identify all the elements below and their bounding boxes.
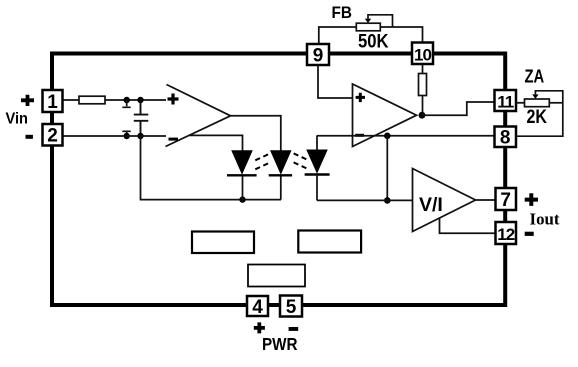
node dot at D1 cathode on rail (239, 196, 245, 202)
svg-text:11: 11 (497, 93, 514, 112)
isolation block rect 3 (248, 265, 305, 287)
light rays D2 to D1 (255, 153, 270, 169)
wire feedback to photodiode D1 anode (189, 135, 243, 151)
capacitor stub bottom (guard cap) (122, 131, 130, 136)
wire cap down to LED bottom rail (141, 136, 282, 200)
svg-text:8: 8 (500, 128, 511, 149)
LED D2 (269, 151, 292, 200)
pin 5 (280, 296, 302, 319)
op-amp U1 + symbol (168, 94, 179, 105)
svg-text:Vin: Vin (6, 111, 29, 128)
wire D3 anode to op-amp2 - input to pin 8 (317, 135, 495, 137)
node D dot on - line (137, 133, 143, 139)
pin 2 (43, 124, 63, 147)
pin 10 (412, 43, 433, 65)
photodiode D3 (305, 135, 330, 200)
wire op-amp2 output to pin 11 (422, 102, 495, 115)
isolation block rect 2 (298, 231, 361, 253)
node A dot on + line (124, 97, 130, 103)
wire bottom rail to V/I input (317, 199, 413, 201)
pin 8 (495, 127, 517, 149)
svg-text:7: 7 (500, 190, 511, 211)
pin 12 (496, 222, 517, 244)
node dot on - line (384, 133, 391, 140)
svg-text:2K: 2K (527, 107, 548, 128)
op-amp U2 + symbol (356, 93, 365, 102)
pot 2K (ZA) (516, 91, 563, 136)
wire V/I output to pin 7 (476, 199, 496, 201)
svg-text:Iout: Iout (530, 210, 560, 229)
photodiode D1 (227, 151, 257, 200)
svg-text:12: 12 (497, 225, 514, 244)
svg-text:10: 10 (414, 46, 431, 65)
svg-text:V/I: V/I (419, 194, 443, 216)
wire op-amp U1 output to LED D2 anode (231, 116, 281, 151)
wire pin1 to resistor to op-amp1 + input (63, 99, 167, 101)
wire pin2 to op-amp1 - input (63, 135, 167, 137)
op-amp U1 - symbol (169, 138, 179, 141)
capacitor C1 between input lines (134, 100, 149, 136)
wire V/I bottom to pin 12 (440, 219, 496, 234)
pin 4 (247, 296, 268, 318)
svg-text:4: 4 (252, 297, 263, 318)
svg-text:2: 2 (47, 126, 58, 147)
isolation block rect 1 (192, 232, 254, 254)
pin 7 (496, 188, 517, 211)
op-amp U2 - symbol (355, 134, 364, 137)
wire - node down to bottom rail (386, 136, 388, 201)
node B dot on + line (137, 97, 143, 103)
pin 1 (43, 90, 63, 113)
node C dot on - line (124, 133, 130, 139)
label - (Vin) (26, 135, 33, 139)
label + (PWR) (254, 322, 265, 333)
pot 50K (FB) (319, 15, 423, 44)
label + (Iout) (525, 193, 538, 206)
svg-text:ZA: ZA (525, 67, 545, 87)
svg-text:FB: FB (332, 4, 353, 22)
svg-text:5: 5 (286, 297, 297, 318)
op-amp U1 (input amp, open triangle) (166, 85, 231, 147)
light rays D2 to D3 (294, 153, 309, 169)
svg-text:50K: 50K (358, 32, 389, 53)
node dot on bottom rail (384, 197, 391, 204)
label - (Iout) (525, 232, 534, 236)
resistor below pin 10 (422, 64, 424, 74)
svg-text:PWR: PWR (262, 334, 298, 354)
label - (PWR) (289, 327, 299, 331)
capacitor stub top (guard cap) (122, 100, 130, 107)
svg-text:1: 1 (47, 92, 58, 113)
pin 9 (307, 44, 329, 67)
V/I converter U3 (413, 169, 476, 232)
pin 11 (495, 90, 517, 112)
node dot op-amp2 output (419, 112, 426, 119)
wire pin9 to op-amp2 + input (318, 65, 353, 98)
outer case border (52, 54, 505, 306)
resistor R (input) (79, 96, 105, 104)
svg-text:9: 9 (313, 46, 324, 67)
label + (Vin) (21, 95, 34, 106)
op-amp U2 (output amp) (353, 84, 417, 147)
